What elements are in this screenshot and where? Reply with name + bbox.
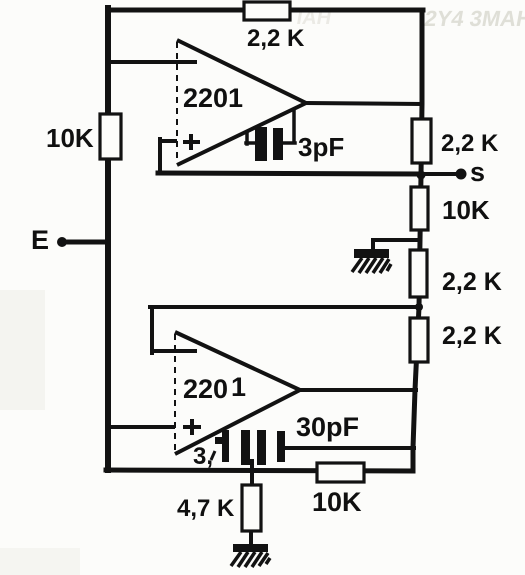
resistor R1 2,2K top <box>244 2 305 52</box>
wire R8 to ground <box>249 531 253 545</box>
svg-text:3,: 3, <box>193 443 213 470</box>
svg-text:30pF: 30pF <box>296 412 359 442</box>
resistor R4 10K right <box>411 187 490 230</box>
faint scan artifact left margin <box>0 290 45 410</box>
wire U2 output to right rail <box>300 388 416 392</box>
svg-text:220: 220 <box>183 374 228 404</box>
wire U1 non-inverting input hook <box>160 139 177 173</box>
op-amp U1 inverting pin - <box>176 60 197 64</box>
svg-text:3pF: 3pF <box>298 132 344 162</box>
svg-text:4,7 K: 4,7 K <box>177 495 235 522</box>
svg-text:1: 1 <box>231 372 246 402</box>
svg-text:10K: 10K <box>46 123 94 153</box>
svg-text:10K: 10K <box>442 195 490 225</box>
capacitor C2 30pF <box>215 412 359 465</box>
svg-text:2,2 K: 2,2 K <box>441 130 499 157</box>
wire U2 inverting input loop to right rail <box>150 307 419 353</box>
wire node s stub <box>421 172 459 176</box>
ground bottom <box>231 544 270 567</box>
wire C2 right plate to right rail <box>285 446 414 450</box>
wire U1 inverting input <box>108 60 178 64</box>
resistor R7 10K bottom <box>312 463 364 517</box>
node s terminal dot <box>456 169 467 180</box>
wire U1 output to right rail <box>306 103 421 104</box>
wire ground tap from right rail <box>373 240 420 252</box>
wire bottom horizontal <box>106 470 413 471</box>
faint scan artifact top-right <box>295 6 525 31</box>
op-amp U2 left edge <box>174 334 176 452</box>
svg-text:2,2 K: 2,2 K <box>247 25 305 52</box>
node s junction dot <box>417 171 426 180</box>
wire C1 left plate hook <box>246 131 255 144</box>
wire C1 right plate hook <box>283 108 295 143</box>
svg-text:2201: 2201 <box>183 83 243 113</box>
svg-text:2,2 K: 2,2 K <box>442 268 502 296</box>
node E terminal dot <box>57 237 67 247</box>
op-amp U1 <box>176 40 306 165</box>
op-amp U2 inverting pin - <box>174 349 197 353</box>
wire long line to node s <box>158 173 421 174</box>
wire U2 non-inverting input <box>108 425 176 429</box>
op-amp U1 non-inverting pin + <box>183 134 200 150</box>
svg-text:10K: 10K <box>312 487 362 517</box>
wire right rail vertical <box>413 10 422 471</box>
wire E input to left rail <box>62 240 108 245</box>
ground right <box>352 249 391 273</box>
faint scan artifact bottom-left <box>0 548 80 575</box>
wire left rail vertical <box>105 8 111 470</box>
svg-text:2,2 K: 2,2 K <box>442 322 502 350</box>
node junction right rail feedback <box>415 303 423 311</box>
resistor R2 10K left <box>46 114 121 159</box>
wire C2 junction down to R8 <box>250 461 254 486</box>
resistor R6 2,2K right bottom <box>410 318 502 362</box>
wire top horizontal from left rail to right rail <box>108 8 423 13</box>
op-amp U2 <box>174 332 300 470</box>
resistor R8 4,7K <box>177 485 261 531</box>
op-amp U2 non-inverting pin + <box>183 419 201 435</box>
svg-text:2Y4 3MAH: 2Y4 3MAH <box>423 6 525 31</box>
resistor R5 2,2K right middle <box>410 250 502 297</box>
svg-text:s: s <box>470 157 485 187</box>
resistor R3 2,2K right top <box>412 119 499 163</box>
svg-text:E: E <box>31 225 49 255</box>
capacitor C1 3pF <box>255 127 344 162</box>
op-amp U1 left edge <box>176 42 178 163</box>
